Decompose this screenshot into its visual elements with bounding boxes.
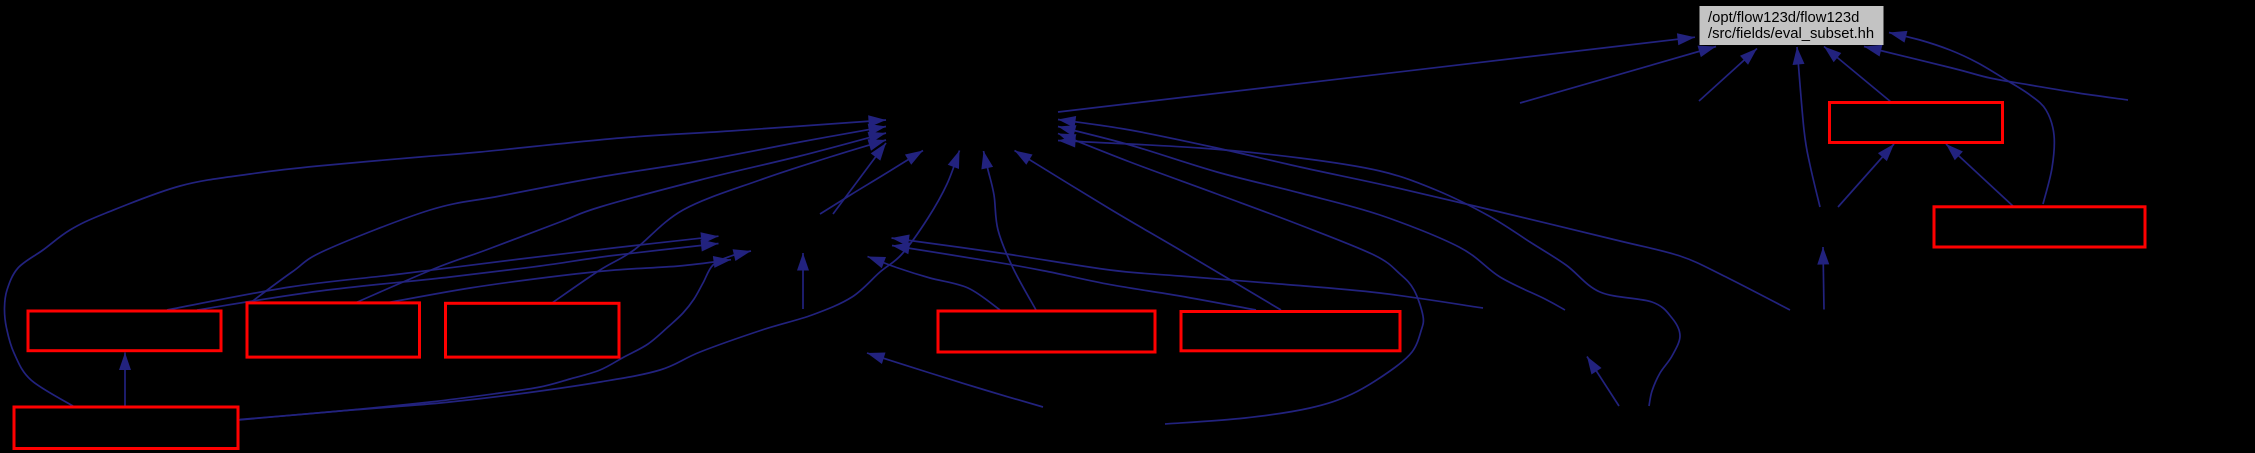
edge: node D -> node A (vertical) [124, 353, 126, 407]
edge: node C -> node M1a [552, 140, 886, 303]
truncated node A (red) [28, 311, 221, 351]
edge: node N -> node M3 (right edge upper) [892, 238, 1484, 308]
edge: node X1 -> node M1b (wrap around F) [1058, 134, 1423, 425]
edge: node W -> node N (short) [1587, 357, 1619, 407]
edge: node B2 -> node M1a [355, 133, 886, 303]
svg-text:/src/fields/eval_subset.hh: /src/fields/eval_subset.hh [1708, 26, 1874, 42]
edge: node N -> node M1b (right edge) [1058, 127, 1565, 311]
edge: node M3 -> node M1b bottom [820, 151, 923, 215]
edge: node M2a -> root [1520, 47, 1716, 104]
svg-text:/opt/flow123d/flow123d: /opt/flow123d/flow123d [1708, 10, 1859, 26]
edge: node D2 -> node M3 bottom (long S curve) [240, 251, 751, 420]
truncated node D (red) [14, 407, 238, 449]
truncated node C (red) [446, 303, 620, 357]
edge: node E -> node M1b (steep) [984, 151, 1037, 310]
edge: node D -> node M1b (long rising sweep) [238, 151, 960, 421]
edge: node A -> node M3 (upper) [167, 236, 719, 310]
edge: node M4 -> root (near vertical) [1797, 47, 1820, 207]
edge: node F -> node M3 (right edge lower) [892, 246, 1256, 311]
truncated node F (red) [1181, 312, 1400, 351]
edge: node M3 -> node M1a (steep short) [833, 143, 886, 214]
edge: node A -> node M3 (lower) [197, 244, 719, 311]
edge: node M1b -> root (left edge) [1058, 37, 1695, 112]
edge: node X1 -> node M5b [867, 353, 1043, 407]
edge: node M2b -> root [1699, 49, 1757, 102]
edge: node M5 -> node M1b (right edge) [1058, 120, 1790, 311]
edge: node R_asm -> root (right edge hook) [1889, 33, 2054, 205]
edge: node R_fe -> root [1824, 47, 1891, 103]
edge: node D -> node M1a (left sweep) [4, 120, 886, 406]
root node grey box [1700, 6, 1884, 45]
edge: node M7 -> root [1864, 47, 2128, 101]
edge: node E -> node M3 (back-left) [868, 257, 1001, 311]
truncated node field_fe (red) [1830, 103, 2003, 143]
truncated node E (red) [938, 311, 1155, 352]
edge: node M5b -> node M3 (vertical) [802, 253, 804, 309]
edge: node M5 -> node M4 (vertical) [1823, 247, 1824, 310]
edge: node R_asm -> node R_fe [1946, 144, 2014, 207]
edge: node F -> node M1b [1015, 151, 1282, 311]
edge: node B -> node M3 (flat) [386, 260, 731, 303]
truncated node B (red) [247, 303, 420, 357]
edge: node B -> node M1a [250, 127, 886, 304]
edge: node M4 -> node R_fe [1838, 144, 1894, 207]
truncated node assembly (red) [1934, 207, 2145, 247]
edge: node W -> node M1b (big hook) [1058, 141, 1680, 407]
